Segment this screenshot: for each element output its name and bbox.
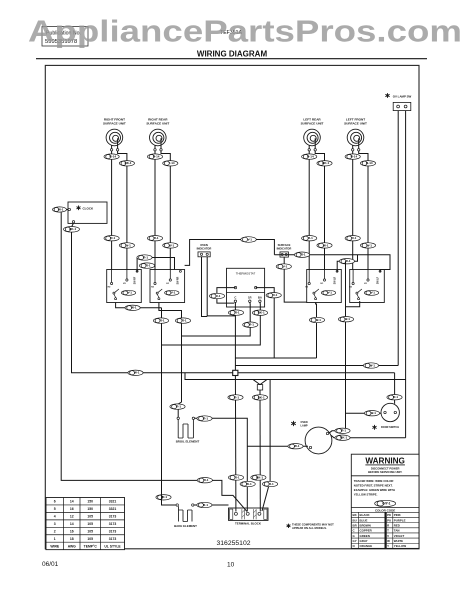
svg-text:W-1: W-1 [169, 243, 175, 247]
svg-text:V-1: V-1 [247, 237, 252, 241]
svg-text:AppliancePartsPros.com: AppliancePartsPros.com [28, 15, 462, 49]
svg-text:R-1: R-1 [249, 323, 254, 327]
surface switch S4 left rear [307, 270, 342, 303]
svg-text:BK-1: BK-1 [322, 161, 329, 165]
svg-text:R-1: R-1 [346, 259, 351, 263]
svg-text:UL STYLE: UL STYLE [104, 544, 121, 548]
lamp feed bus [235, 365, 398, 367]
title underline rule [36, 58, 427, 60]
wire oven lamp lower lead to lamp switch [331, 435, 406, 438]
wire clock neutral lead down to mid bus [72, 223, 74, 227]
wire oven indicator left lead down [202, 257, 208, 317]
broil element HE1 [176, 417, 200, 443]
svg-text:R-1: R-1 [204, 478, 209, 482]
svg-text:105: 105 [87, 537, 93, 541]
wire L2 run down between switches to oven lamp and door switch [345, 261, 347, 431]
neutral bus [238, 372, 394, 374]
wire surface switch RF output to bake element feed [116, 303, 162, 308]
wire right feed down to terminal 3 [262, 380, 270, 512]
svg-text:V-1: V-1 [283, 264, 288, 268]
wire oven lamp switch right lead down right side [405, 111, 407, 438]
svg-text:TEMP°C: TEMP°C [84, 544, 98, 548]
svg-text:R-1: R-1 [162, 495, 167, 499]
surface switch S3 right rear [150, 270, 185, 303]
svg-text:4: 4 [54, 515, 56, 519]
wire oven indicator right lead down to thermostat common [207, 257, 235, 316]
wire oven lamp switch left lead down to door switch [397, 111, 399, 366]
svg-text:3: 3 [54, 522, 56, 526]
wire thermostat pilot loop [217, 288, 236, 304]
svg-text:W-1: W-1 [369, 363, 375, 367]
door switch S7 [372, 403, 399, 429]
svg-text:WIRING DIAGRAM: WIRING DIAGRAM [197, 49, 268, 58]
svg-text:VIOLET: VIOLET [394, 534, 405, 538]
svg-text:AWG: AWG [68, 544, 76, 548]
svg-text:W-1: W-1 [131, 306, 137, 310]
svg-text:R-1: R-1 [146, 264, 151, 268]
wire thermostat 1R lead down [182, 302, 251, 336]
svg-text:R-14: R-14 [351, 155, 358, 159]
svg-text:NOTED FIRST, STRIPE NEXT.: NOTED FIRST, STRIPE NEXT. [354, 483, 393, 487]
svg-text:WARNING: WARNING [365, 457, 405, 466]
svg-text:OVEN: OVEN [200, 243, 208, 247]
svg-text:R-14: R-14 [153, 155, 160, 159]
svg-text:3321: 3321 [109, 507, 117, 511]
svg-text:14: 14 [70, 500, 74, 504]
wire broil right lead to bus [195, 418, 248, 511]
wire junction split to splice J2 [253, 380, 260, 385]
wire code ovals above surface switch [111, 233, 113, 270]
wire code oval left of clock [53, 207, 67, 212]
svg-text:W-1: W-1 [294, 444, 300, 448]
bake element feed run [161, 308, 163, 495]
svg-text:R-1: R-1 [235, 311, 240, 315]
svg-text:3173: 3173 [109, 515, 117, 519]
svg-text:Y-14: Y-14 [168, 161, 175, 165]
svg-text:V-1: V-1 [171, 291, 176, 295]
svg-text:2: 2 [54, 530, 56, 534]
svg-text:R-1: R-1 [160, 319, 165, 323]
diagram border frame [45, 65, 419, 548]
svg-text:R-1: R-1 [351, 236, 356, 240]
svg-text:150: 150 [87, 507, 93, 511]
svg-text:16: 16 [70, 507, 74, 511]
svg-text:R-1: R-1 [269, 482, 274, 486]
svg-text:R-1: R-1 [176, 405, 181, 409]
wire code ovals above surface switch [352, 233, 354, 270]
wire L1 link left switch pair [136, 258, 138, 273]
svg-text:BK-1: BK-1 [340, 436, 347, 440]
svg-text:1: 1 [54, 537, 56, 541]
svg-text:V-1: V-1 [127, 291, 132, 295]
svg-text:SURFACE: SURFACE [278, 243, 291, 247]
terminal block TB1 [229, 508, 269, 526]
svg-text:WHITE: WHITE [394, 539, 403, 543]
svg-text:ORANGE: ORANGE [360, 544, 373, 548]
svg-text:SURFACE UNIT: SURFACE UNIT [344, 122, 367, 126]
svg-text:W-1: W-1 [366, 243, 372, 247]
svg-text:W: W [387, 539, 390, 543]
svg-text:R-1: R-1 [234, 395, 239, 399]
wire broil element feed from switch RR [159, 303, 182, 418]
svg-text:SW LF: SW LF [377, 276, 379, 284]
svg-text:5: 5 [54, 507, 56, 511]
wire code oval on indicator feed [241, 237, 257, 243]
svg-text:18: 18 [70, 537, 74, 541]
svg-text:G/Y-1: G/Y-1 [382, 501, 390, 505]
svg-text:CLOCK: CLOCK [83, 206, 94, 210]
svg-text:SURFACE UNIT: SURFACE UNIT [301, 122, 324, 126]
svg-text:RED: RED [394, 524, 400, 528]
svg-text:6: 6 [54, 500, 56, 504]
svg-text:316255102: 316255102 [217, 540, 251, 547]
svg-text:BROWN: BROWN [360, 524, 371, 528]
wire surface switch LR output down to bus [315, 303, 318, 359]
svg-text:R-14: R-14 [110, 155, 117, 159]
svg-text:W-1: W-1 [315, 318, 321, 322]
wire bake right lead to terminal block [194, 504, 228, 506]
wire splice J2 down to terminal 3 [259, 390, 261, 512]
svg-text:105: 105 [87, 515, 93, 519]
clock K1 [68, 202, 107, 223]
svg-text:COPPER: COPPER [360, 529, 373, 533]
svg-text:PU: PU [387, 518, 391, 522]
svg-text:BAKE ELEMENT: BAKE ELEMENT [174, 524, 197, 528]
wire neutral bus down to door switch [394, 373, 396, 404]
note these components may not appear on all models [287, 524, 291, 528]
wire code oval on surface indicator lead [276, 264, 291, 269]
svg-text:R-1: R-1 [143, 255, 148, 259]
wire code ovals above surface switch [154, 233, 156, 270]
svg-text:R-1: R-1 [154, 236, 159, 240]
svg-text:150: 150 [87, 500, 93, 504]
wire surface indicator lead down to switch bus [284, 257, 307, 302]
svg-text:3173: 3173 [109, 537, 117, 541]
wire thermostat L2 lead right and down [256, 288, 275, 358]
svg-text:WIRE: WIRE [50, 544, 60, 548]
wire left bus L1 down to bottom [61, 212, 247, 511]
surface indicator light DS2 [277, 243, 292, 257]
wire junction down to terminal 1 [234, 376, 237, 512]
svg-text:THERMOSTAT: THERMOSTAT [236, 272, 256, 276]
svg-text:DOOR SWITCH: DOOR SWITCH [381, 426, 399, 429]
svg-text:BA: BA [258, 296, 262, 300]
svg-text:BEFORE SERVICING UNIT.: BEFORE SERVICING UNIT. [368, 470, 402, 474]
svg-text:GY: GY [353, 539, 357, 543]
wire L2 link right switch pair [337, 255, 357, 272]
oven thermostat S6 [227, 268, 265, 307]
svg-text:BU: BU [353, 518, 357, 522]
svg-text:W-1: W-1 [134, 371, 140, 375]
svg-text:GRAY: GRAY [360, 539, 368, 543]
svg-text:W-1: W-1 [370, 411, 376, 415]
svg-text:3173: 3173 [109, 530, 117, 534]
wire code oval on neutral bus [128, 370, 143, 375]
junction splice J1 [233, 370, 238, 375]
svg-text:SW RF: SW RF [134, 276, 136, 284]
surface switch S5 left front [350, 270, 385, 303]
svg-text:W-1: W-1 [323, 243, 329, 247]
svg-text:BLACK: BLACK [360, 513, 371, 517]
svg-text:BK-1: BK-1 [125, 161, 132, 165]
oven lamp DS3 [291, 421, 332, 454]
oven lamp switch S1 [385, 93, 411, 111]
svg-text:TERMINAL BLOCK: TERMINAL BLOCK [235, 522, 262, 526]
svg-text:INDICATOR: INDICATOR [197, 247, 212, 251]
svg-text:PINK: PINK [394, 513, 402, 517]
svg-text:R-1: R-1 [341, 429, 346, 433]
svg-text:GREEN: GREEN [360, 534, 370, 538]
svg-text:SW LR: SW LR [334, 276, 336, 284]
wire oven lamp left lead [247, 445, 308, 447]
svg-text:R-1: R-1 [235, 475, 240, 479]
svg-text:YELLOW STRIPE.: YELLOW STRIPE. [354, 492, 378, 496]
svg-text:3321: 3321 [109, 500, 117, 504]
svg-text:BK-1: BK-1 [258, 311, 265, 315]
svg-text:T: T [387, 529, 389, 533]
wire oven lamp right lead to door switch [329, 431, 346, 433]
svg-text:06/01: 06/01 [42, 561, 59, 568]
svg-text:R-14: R-14 [307, 155, 314, 159]
svg-text:R-1: R-1 [182, 319, 187, 323]
svg-text:105: 105 [87, 530, 93, 534]
svg-text:SW RR: SW RR [178, 276, 180, 284]
svg-text:TAN: TAN [394, 529, 400, 533]
svg-text:BLUE: BLUE [360, 518, 368, 522]
svg-text:10: 10 [227, 562, 235, 569]
svg-text:Y: Y [387, 544, 389, 548]
svg-text:BK-1: BK-1 [256, 475, 263, 479]
svg-text:C: C [234, 296, 236, 300]
thermostat bus line [235, 357, 316, 359]
svg-text:THESE COMPONENTS MAY NOT: THESE COMPONENTS MAY NOT [292, 522, 334, 526]
svg-text:BK-1: BK-1 [69, 227, 76, 231]
indicator feed wire [185, 240, 275, 266]
wire surface switch LF output to L2 run [346, 301, 360, 307]
svg-text:105: 105 [87, 522, 93, 526]
svg-text:R-1: R-1 [393, 395, 398, 399]
svg-text:V-1: V-1 [216, 294, 221, 298]
svg-text:W-1: W-1 [246, 482, 252, 486]
svg-text:PURPLE: PURPLE [394, 518, 406, 522]
publication number box [42, 27, 88, 47]
wire code oval below clock [64, 227, 80, 233]
svg-text:BK-1: BK-1 [258, 395, 265, 399]
svg-text:V-1: V-1 [327, 291, 332, 295]
oven indicator light DS1 [197, 243, 212, 257]
wire code oval above door switch [387, 395, 402, 400]
svg-text:R-1: R-1 [308, 236, 313, 240]
svg-text:SURFACE UNIT: SURFACE UNIT [103, 122, 126, 126]
svg-text:R-1: R-1 [203, 416, 208, 420]
warning box [351, 454, 419, 548]
wire thermostat BA lead down [162, 302, 261, 345]
svg-text:R-1: R-1 [110, 236, 115, 240]
svg-text:R-1: R-1 [272, 293, 277, 297]
svg-text:12: 12 [70, 515, 74, 519]
svg-text:1R: 1R [248, 296, 252, 300]
svg-text:R-1: R-1 [203, 503, 208, 507]
svg-text:W-1: W-1 [344, 317, 350, 321]
svg-text:16: 16 [70, 530, 74, 534]
svg-text:W-1: W-1 [125, 243, 131, 247]
svg-text:V-1: V-1 [370, 291, 375, 295]
svg-text:BROIL ELEMENT: BROIL ELEMENT [176, 439, 200, 443]
svg-text:SURFACE UNIT: SURFACE UNIT [146, 122, 169, 126]
svg-text:OV LAMP SW: OV LAMP SW [393, 95, 412, 99]
svg-text:DISCONNECT POWER: DISCONNECT POWER [371, 466, 400, 470]
wire L2 supply bus to switches [274, 255, 390, 272]
svg-text:COLOR CODE: COLOR CODE [375, 508, 395, 512]
svg-text:W-1: W-1 [58, 207, 64, 211]
wire code ovals above surface switch [308, 233, 310, 270]
wire thermostat C lead down to junction [234, 302, 236, 370]
svg-text:LAMP: LAMP [301, 424, 308, 427]
svg-text:INDICATOR: INDICATOR [277, 246, 292, 250]
wire bake feed bend [162, 495, 176, 506]
svg-text:V: V [387, 534, 389, 538]
wire code oval on L2 supply [294, 252, 309, 257]
lower bus L2 [185, 373, 406, 380]
svg-text:R-1: R-1 [301, 253, 306, 257]
svg-text:O-14: O-14 [366, 161, 373, 165]
svg-text:3173: 3173 [109, 522, 117, 526]
wire clock left lead to left bus [67, 209, 69, 211]
wire gauge table [46, 498, 125, 550]
svg-text:EXAMPLE: GREEN WIRE WITH: EXAMPLE: GREEN WIRE WITH [354, 488, 395, 492]
svg-text:APPEAR ON ALL MODELS.: APPEAR ON ALL MODELS. [292, 526, 327, 530]
svg-text:14: 14 [70, 522, 74, 526]
svg-text:YELLOW: YELLOW [394, 544, 407, 548]
svg-text:TRACER WIRE: WIRE COLOR: TRACER WIRE: WIRE COLOR [354, 479, 394, 483]
bake element HE2 [174, 504, 197, 528]
wire code oval on bake feed [156, 495, 171, 500]
surface switch S2 right front [107, 270, 142, 303]
